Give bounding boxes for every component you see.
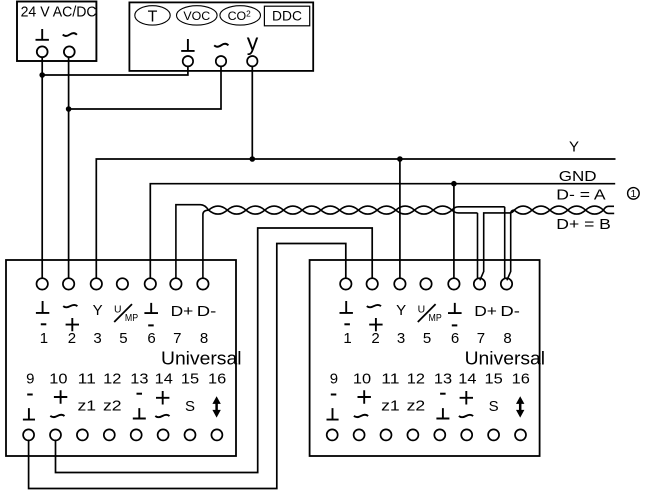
svg-text:Y: Y: [569, 138, 579, 155]
svg-text:VOC: VOC: [183, 9, 210, 23]
svg-text:y: y: [247, 29, 259, 55]
svg-text:GND: GND: [559, 168, 597, 185]
svg-text:DDC: DDC: [272, 8, 302, 23]
svg-text:D+ = B: D+ = B: [556, 217, 611, 233]
svg-text:T: T: [148, 8, 158, 25]
svg-text:24 V AC/DC: 24 V AC/DC: [21, 4, 97, 20]
svg-text:D- = A: D- = A: [556, 187, 606, 203]
